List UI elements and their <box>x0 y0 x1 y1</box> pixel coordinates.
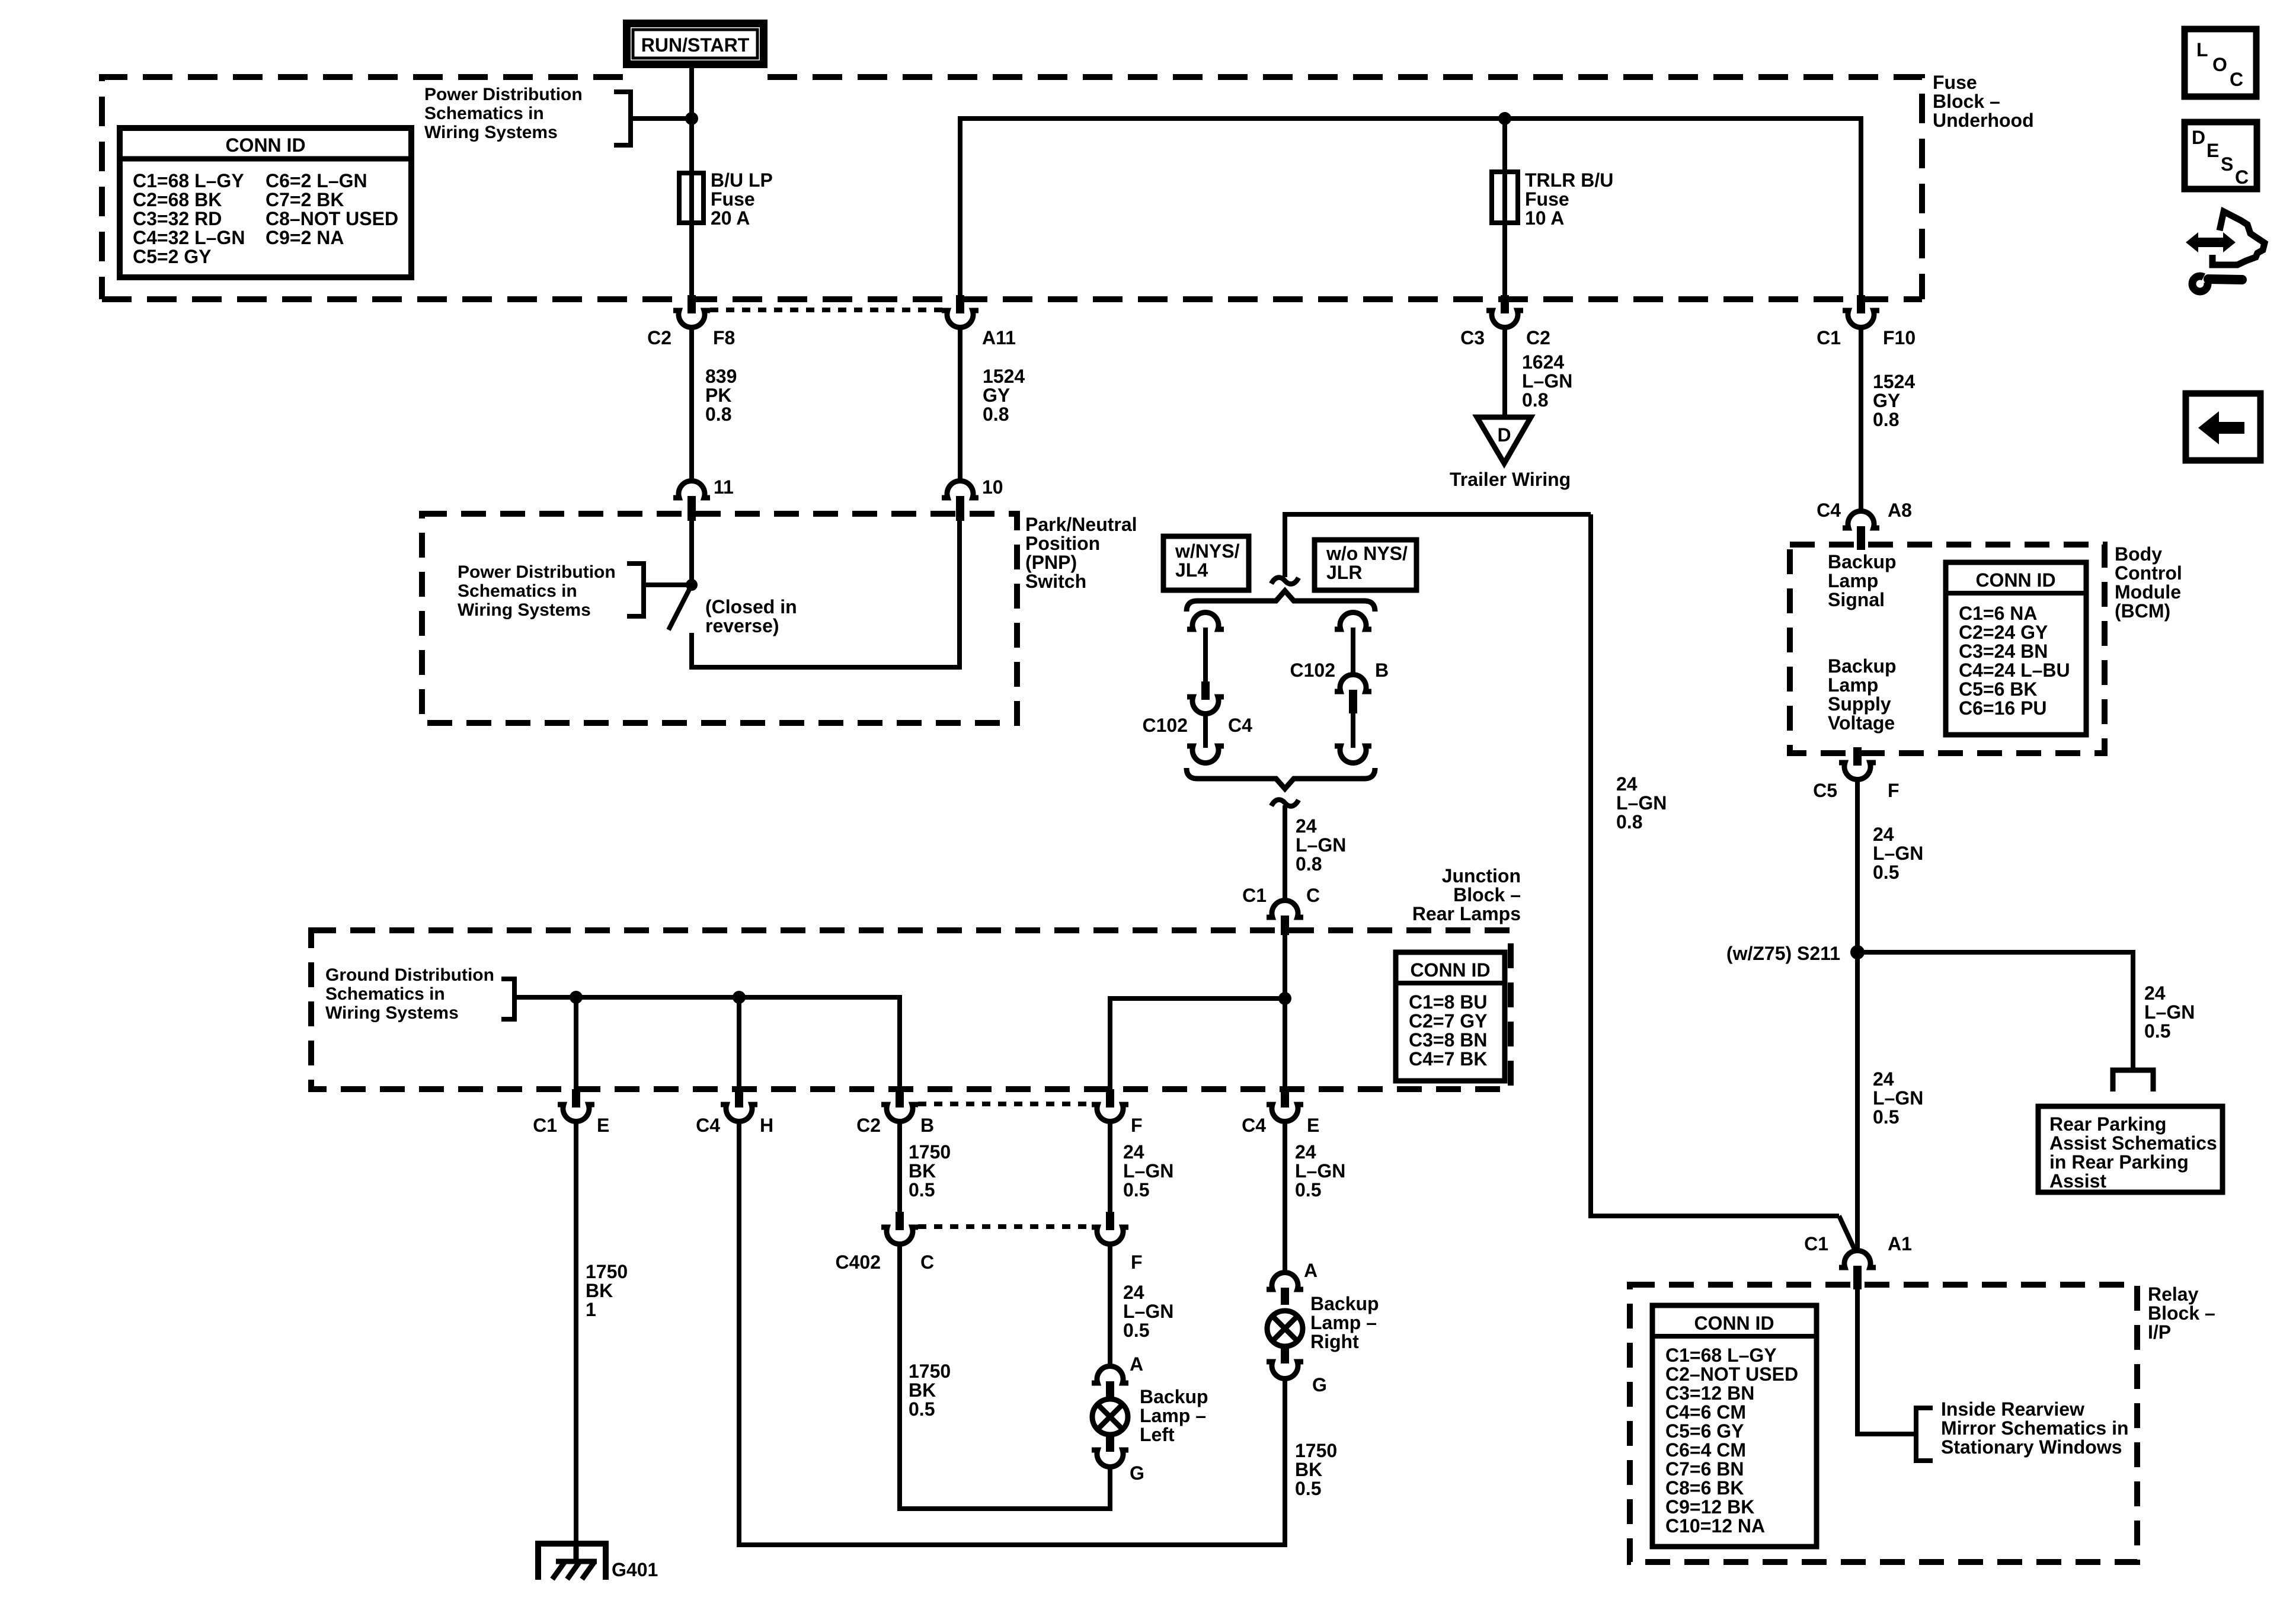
svg-text:1524: 1524 <box>983 366 1025 387</box>
wire F to left lamp A <box>1108 1244 1112 1368</box>
relay block I/P dashed box <box>1630 1285 2137 1562</box>
svg-text:G: G <box>1130 1462 1144 1484</box>
junction block rear lamps dashed box <box>311 930 1511 1089</box>
svg-text:C3=24 BN: C3=24 BN <box>1959 641 2048 662</box>
svg-text:0.5: 0.5 <box>1295 1179 1321 1201</box>
left option branch wire <box>1187 612 1224 629</box>
svg-text:D: D <box>1497 424 1511 446</box>
svg-text:1624: 1624 <box>1522 351 1564 373</box>
svg-text:Junction: Junction <box>1442 865 1521 886</box>
svg-text:C7=6 BN: C7=6 BN <box>1665 1458 1744 1480</box>
svg-text:0.8: 0.8 <box>705 404 731 425</box>
svg-text:I/P: I/P <box>2148 1321 2171 1343</box>
svg-text:A: A <box>1130 1353 1143 1375</box>
svg-text:(PNP): (PNP) <box>1025 552 1077 573</box>
svg-text:(BCM): (BCM) <box>2115 600 2170 622</box>
svg-text:Body: Body <box>2115 543 2162 565</box>
label Fuse Block - Underhood <box>1933 72 2034 131</box>
right branch lower wire <box>1351 713 1355 748</box>
left branch lower wire <box>1203 714 1208 748</box>
svg-text:Assist Schematics: Assist Schematics <box>2049 1132 2217 1154</box>
svg-text:24: 24 <box>1123 1141 1144 1163</box>
svg-text:JL4: JL4 <box>1175 559 1208 581</box>
svg-text:C4=7 BK: C4=7 BK <box>1409 1048 1488 1070</box>
wire F down to second F connector <box>1108 1122 1112 1212</box>
svg-text:(Closed in: (Closed in <box>705 596 797 617</box>
note Ground Distribution Schematics in Wiring Systems <box>325 965 494 1023</box>
svg-text:1750: 1750 <box>586 1261 628 1282</box>
svg-text:Inside Rearview: Inside Rearview <box>1941 1398 2084 1420</box>
svg-text:24: 24 <box>1616 773 1638 795</box>
svg-text:F10: F10 <box>1883 327 1916 348</box>
svg-text:C10=12 NA: C10=12 NA <box>1665 1515 1765 1537</box>
svg-text:0.8: 0.8 <box>1616 811 1642 833</box>
svg-text:L–GN: L–GN <box>1296 834 1346 856</box>
wire label 1524 GY 0.8 (F10) <box>1873 371 1915 430</box>
svg-text:Block –: Block – <box>1933 91 2000 112</box>
svg-text:E: E <box>2207 140 2219 161</box>
connector F (body harness) <box>1092 1212 1143 1273</box>
svg-text:C4: C4 <box>696 1115 720 1136</box>
wire 24 L-GN 0.8 long feed to relay block <box>1591 514 1839 1216</box>
svg-text:Switch: Switch <box>1025 571 1086 592</box>
svg-text:RUN/START: RUN/START <box>641 34 750 56</box>
svg-text:Trailer Wiring: Trailer Wiring <box>1450 469 1571 490</box>
note Power Distribution Schematics in Wiring Systems (PNP) <box>458 562 616 620</box>
svg-text:GY: GY <box>983 385 1010 406</box>
wire tap to TRLR fuse <box>1502 119 1507 172</box>
svg-text:L–GN: L–GN <box>1295 1160 1345 1182</box>
connector G (left lamp) <box>1092 1435 1144 1484</box>
svg-text:Signal: Signal <box>1828 589 1885 610</box>
svg-text:Assist: Assist <box>2049 1170 2106 1192</box>
svg-text:0.5: 0.5 <box>1295 1478 1321 1499</box>
svg-text:C3: C3 <box>1460 327 1485 348</box>
svg-text:Backup: Backup <box>1828 655 1897 677</box>
svg-text:CONN ID: CONN ID <box>225 135 305 156</box>
connector C2/F8 <box>647 295 735 348</box>
svg-text:1750: 1750 <box>909 1361 951 1382</box>
note Power Distribution Schematics in Wiring Systems (top) <box>424 85 583 142</box>
wire fuse to C2/F8 <box>689 223 694 296</box>
svg-text:H: H <box>760 1115 773 1136</box>
wire top link options to long feed <box>1285 514 1591 577</box>
wire label 1750 BK 0.5 (C2/B) <box>909 1141 951 1201</box>
svg-text:E: E <box>597 1115 609 1136</box>
svg-text:0.5: 0.5 <box>1123 1179 1149 1201</box>
wire label 1750 BK 0.5 (C402) <box>909 1361 951 1420</box>
wire C402/C ground return to left lamp <box>900 1244 1110 1509</box>
svg-text:Park/Neutral: Park/Neutral <box>1025 514 1137 535</box>
over-brace options split <box>1187 591 1375 612</box>
svg-text:O: O <box>2212 54 2227 75</box>
label Park/Neutral Position (PNP) Switch <box>1025 514 1137 592</box>
svg-text:Lamp –: Lamp – <box>1310 1312 1377 1333</box>
wire C2/F8 down to pin 11 <box>689 328 694 483</box>
svg-text:C9=12 BK: C9=12 BK <box>1665 1496 1754 1518</box>
bracket to ground note <box>501 979 514 1019</box>
svg-text:Block –: Block – <box>2148 1302 2215 1324</box>
svg-text:Fuse: Fuse <box>1525 188 1569 210</box>
connector C102/B <box>1290 660 1389 713</box>
CONN ID table fuse block underhood <box>120 128 411 277</box>
svg-text:C: C <box>2235 167 2249 188</box>
svg-text:D: D <box>2192 127 2205 148</box>
icon DESC box <box>2185 122 2257 189</box>
svg-text:C2=24 GY: C2=24 GY <box>1959 622 2048 643</box>
svg-text:F: F <box>1888 780 1900 801</box>
svg-text:A1: A1 <box>1888 1233 1912 1254</box>
svg-text:Supply: Supply <box>1828 693 1891 715</box>
svg-text:1524: 1524 <box>1873 371 1915 392</box>
svg-text:C2: C2 <box>856 1115 881 1136</box>
svg-text:24: 24 <box>1873 1068 1894 1090</box>
svg-text:24: 24 <box>1123 1282 1144 1303</box>
node junction block tap <box>1278 992 1291 1005</box>
svg-text:C6=2 L–GN: C6=2 L–GN <box>266 170 367 191</box>
connector pin 10 <box>942 476 1003 521</box>
svg-text:Fuse: Fuse <box>1933 72 1977 93</box>
bracket to power distribution note <box>614 92 631 145</box>
svg-text:L–GN: L–GN <box>1616 792 1667 814</box>
svg-text:C: C <box>1306 885 1320 906</box>
svg-text:w/o NYS/: w/o NYS/ <box>1326 543 1408 564</box>
label Backup Lamp Signal <box>1828 551 1897 610</box>
svg-text:B: B <box>920 1115 934 1136</box>
svg-text:Power Distribution: Power Distribution <box>424 85 583 104</box>
connector C4/H <box>696 1089 773 1136</box>
wire switch lower contact to pin 10 <box>692 517 960 667</box>
under-brace options merge <box>1187 768 1375 789</box>
svg-text:BK: BK <box>909 1379 936 1401</box>
CONN ID table BCM <box>1946 562 2086 735</box>
svg-text:BK: BK <box>1295 1459 1322 1480</box>
connector A (left lamp) <box>1092 1353 1143 1398</box>
wire label 24 L-GN 0.5 (branch) <box>2144 982 2195 1042</box>
svg-text:L–GN: L–GN <box>1123 1160 1173 1182</box>
diagonal into C1/A1 <box>1839 1216 1855 1250</box>
connector C1/A1 <box>1804 1233 1912 1289</box>
connector A (right lamp) <box>1267 1260 1318 1305</box>
wire bracket to RUN/START feed <box>631 116 692 121</box>
svg-text:10 A: 10 A <box>1525 207 1564 229</box>
svg-text:C5=6 GY: C5=6 GY <box>1665 1420 1744 1442</box>
svg-text:C2=68 BK: C2=68 BK <box>133 189 222 210</box>
label Relay Block - I/P <box>2148 1283 2215 1343</box>
svg-text:839: 839 <box>705 366 737 387</box>
svg-text:A8: A8 <box>1888 500 1912 521</box>
svg-text:TRLR B/U: TRLR B/U <box>1525 169 1613 191</box>
svg-text:0.8: 0.8 <box>1296 853 1322 875</box>
svg-text:C4: C4 <box>1228 715 1252 736</box>
wire A1 into relay block to mirror bracket <box>1857 1289 1914 1434</box>
svg-text:A: A <box>1304 1260 1318 1281</box>
svg-text:C4=6 CM: C4=6 CM <box>1665 1401 1746 1423</box>
wire TRLR fuse to C3/C2 <box>1502 223 1507 296</box>
connector A11 <box>942 295 1016 348</box>
wire right lamp G to return bus <box>1283 1379 1287 1547</box>
option box w/NYS/JL4 <box>1163 536 1249 590</box>
svg-text:Backup: Backup <box>1828 551 1897 572</box>
wire ground tap E down <box>574 997 578 1089</box>
splice S211 <box>1850 945 1865 959</box>
svg-text:C3=32 RD: C3=32 RD <box>133 208 222 229</box>
svg-text:C1: C1 <box>1817 327 1841 348</box>
svg-text:C2–NOT USED: C2–NOT USED <box>1665 1363 1798 1385</box>
svg-text:GY: GY <box>1873 390 1900 411</box>
svg-text:Voltage: Voltage <box>1828 712 1895 734</box>
svg-text:BK: BK <box>909 1160 936 1182</box>
svg-text:F: F <box>1131 1251 1143 1273</box>
connector C1/C <box>1242 885 1320 935</box>
option box w/o NYS/JLR <box>1315 540 1416 590</box>
off-page triangle D trailer wiring <box>1450 417 1571 490</box>
svg-text:C1=68 L–GY: C1=68 L–GY <box>133 170 244 191</box>
connector G (right lamp) <box>1267 1346 1327 1395</box>
svg-text:Lamp: Lamp <box>1828 674 1878 696</box>
svg-text:Control: Control <box>2115 562 2182 584</box>
svg-text:L: L <box>2196 39 2208 60</box>
svg-text:0.5: 0.5 <box>1873 1106 1899 1128</box>
svg-text:24: 24 <box>2144 982 2166 1004</box>
svg-text:F: F <box>1131 1115 1143 1136</box>
svg-text:24: 24 <box>1296 815 1317 837</box>
svg-text:Stationary Windows: Stationary Windows <box>1941 1436 2122 1458</box>
svg-text:B/U LP: B/U LP <box>711 169 773 191</box>
inline connector hook (top) <box>1271 578 1299 584</box>
svg-text:C4: C4 <box>1817 500 1841 521</box>
svg-text:S: S <box>2221 153 2233 175</box>
svg-text:G: G <box>1312 1374 1327 1395</box>
svg-text:Backup: Backup <box>1140 1386 1208 1407</box>
svg-text:Wiring Systems: Wiring Systems <box>424 123 558 142</box>
ground bus wire <box>514 997 900 1089</box>
svg-text:0.5: 0.5 <box>909 1398 935 1420</box>
output bus A11 to F10 <box>960 119 1861 296</box>
svg-text:Schematics in: Schematics in <box>424 104 544 123</box>
svg-text:C3=8 BN: C3=8 BN <box>1409 1029 1488 1051</box>
wire C2/B down to C402/C <box>897 1122 902 1212</box>
svg-text:PK: PK <box>705 385 731 406</box>
connector C4/A8 <box>1817 500 1912 550</box>
CONN ID table junction block <box>1396 952 1505 1081</box>
svg-text:1750: 1750 <box>909 1141 951 1163</box>
connector C1/E <box>533 1089 609 1136</box>
wire label 1750 BK 0.5 (right lamp) <box>1295 1440 1337 1499</box>
svg-text:in Rear Parking: in Rear Parking <box>2049 1151 2189 1173</box>
svg-text:L–GN: L–GN <box>1873 1087 1923 1109</box>
dotted connector tie C2/F8 to A11 <box>710 308 942 312</box>
right option branch wire <box>1335 612 1371 629</box>
svg-text:24: 24 <box>1873 824 1894 845</box>
svg-text:L–GN: L–GN <box>1123 1301 1173 1322</box>
label Junction Block - Rear Lamps <box>1412 865 1521 924</box>
svg-text:Relay: Relay <box>2148 1283 2199 1305</box>
svg-text:reverse): reverse) <box>705 615 779 636</box>
connector C3/C2 <box>1460 295 1550 348</box>
icon back arrow box <box>2186 393 2260 460</box>
label Body Control Module (BCM) <box>2115 543 2182 622</box>
wire label 24 L-GN 0.5 (to left lamp) <box>1123 1282 1173 1341</box>
wire label 1750 BK 1 (C1/E) <box>586 1261 628 1320</box>
svg-text:F8: F8 <box>713 327 735 348</box>
svg-text:C7=2 BK: C7=2 BK <box>266 189 344 210</box>
svg-text:Rear Parking: Rear Parking <box>2049 1113 2166 1135</box>
svg-text:C1: C1 <box>1242 885 1267 906</box>
wire label 24 L-GN 0.5 (F) <box>1123 1141 1173 1201</box>
CONN ID table relay block <box>1652 1305 1817 1547</box>
svg-text:CONN ID: CONN ID <box>1410 959 1490 981</box>
svg-text:1: 1 <box>586 1299 596 1320</box>
svg-text:L–GN: L–GN <box>1522 370 1572 392</box>
dotted connector tie C2/B to F <box>918 1102 1092 1106</box>
BCM dashed box <box>1790 545 2105 753</box>
icon LOC box <box>2185 29 2256 97</box>
svg-text:C: C <box>2230 69 2243 90</box>
svg-text:JLR: JLR <box>1326 562 1362 583</box>
wire label 24 L-GN 0.5 (C4/E) <box>1295 1141 1345 1201</box>
svg-text:C102: C102 <box>1290 660 1336 681</box>
wire C4/E to right lamp A <box>1283 1122 1287 1274</box>
svg-text:C4=32 L–GN: C4=32 L–GN <box>133 227 245 248</box>
svg-text:Mirror Schematics in: Mirror Schematics in <box>1941 1417 2129 1439</box>
wire label 1624 L-GN 0.8 <box>1522 351 1572 411</box>
wire ground tap H down <box>737 997 741 1089</box>
svg-text:C4=24 L–BU: C4=24 L–BU <box>1959 660 2070 681</box>
svg-text:C2: C2 <box>647 327 671 348</box>
svg-text:Schematics in: Schematics in <box>325 984 445 1004</box>
switch blade (closed in reverse) <box>669 585 692 630</box>
svg-text:L–GN: L–GN <box>2144 1001 2195 1023</box>
svg-text:10: 10 <box>982 476 1003 498</box>
inline connector hook (bottom) <box>1271 800 1299 806</box>
svg-text:C8=6 BK: C8=6 BK <box>1665 1477 1744 1499</box>
svg-text:Fuse: Fuse <box>711 188 755 210</box>
wire A11 down to pin 10 <box>958 328 962 483</box>
dotted connector tie C402/C to F <box>918 1224 1092 1229</box>
svg-text:CONN ID: CONN ID <box>1694 1313 1774 1334</box>
connector C102/C4 <box>1143 681 1253 736</box>
svg-text:24: 24 <box>1295 1141 1316 1163</box>
wire C1/C into junction block <box>1283 934 1287 1089</box>
svg-text:0.8: 0.8 <box>1522 389 1548 411</box>
svg-text:11: 11 <box>714 476 734 498</box>
svg-text:0.5: 0.5 <box>1873 862 1899 883</box>
svg-text:w/NYS/: w/NYS/ <box>1175 540 1240 562</box>
svg-text:0.8: 0.8 <box>983 404 1009 425</box>
wire RUN/START down to fuse <box>689 66 694 173</box>
svg-text:L–GN: L–GN <box>1873 843 1923 864</box>
bracket to PNP note <box>627 564 644 616</box>
svg-text:C3=12 BN: C3=12 BN <box>1665 1382 1754 1404</box>
svg-text:C402: C402 <box>836 1251 881 1273</box>
svg-text:Left: Left <box>1140 1424 1175 1445</box>
connector pin 11 <box>673 476 734 521</box>
fuse B/U LP 20A <box>679 173 703 223</box>
svg-text:C6=16 PU: C6=16 PU <box>1959 697 2047 719</box>
off-page fork to rear parking assist <box>2113 1070 2153 1092</box>
svg-text:CONN ID: CONN ID <box>1975 569 2055 591</box>
wire label 24 L-GN 0.5 (to A1) <box>1873 1068 1923 1128</box>
wire C5/F down through S211 to C1/A1 <box>1855 780 1860 1252</box>
svg-text:(w/Z75) S211: (w/Z75) S211 <box>1726 943 1840 964</box>
wire S211 branch to rear parking assist <box>1857 952 2133 1068</box>
wire label 24 L-GN 0.5 (C5/F) <box>1873 824 1923 883</box>
svg-text:Schematics in: Schematics in <box>458 581 577 601</box>
svg-text:C1=8 BU: C1=8 BU <box>1409 991 1488 1013</box>
node junction TRLR fuse tap <box>1498 112 1511 125</box>
wire C1/E to G401 <box>574 1122 578 1544</box>
svg-text:B: B <box>1375 660 1389 681</box>
connector F (junction block) <box>1092 1089 1143 1136</box>
svg-text:C1: C1 <box>1804 1233 1828 1254</box>
svg-text:Lamp: Lamp <box>1828 570 1878 591</box>
svg-text:0.8: 0.8 <box>1873 409 1899 430</box>
svg-text:0.5: 0.5 <box>1123 1320 1149 1341</box>
svg-text:C4: C4 <box>1242 1115 1266 1136</box>
RUN/START power feed box <box>623 20 768 68</box>
callout box Rear Parking Assist Schematics <box>2038 1106 2223 1192</box>
svg-text:A11: A11 <box>982 327 1016 348</box>
svg-text:C8–NOT USED: C8–NOT USED <box>266 208 398 229</box>
svg-text:1750: 1750 <box>1295 1440 1337 1461</box>
svg-text:20 A: 20 A <box>711 207 750 229</box>
wire pin 11 into switch <box>689 517 694 585</box>
svg-text:C9=2 NA: C9=2 NA <box>266 227 344 248</box>
note Inside Rearview Mirror Schematics in Stationary Windows <box>1941 1398 2129 1458</box>
svg-text:G401: G401 <box>612 1559 658 1580</box>
wire C4/H down to lamp return bus <box>737 1122 741 1547</box>
svg-text:C1=68 L–GY: C1=68 L–GY <box>1665 1345 1777 1366</box>
svg-text:E: E <box>1307 1115 1319 1136</box>
svg-text:C1=6 NA: C1=6 NA <box>1959 603 2038 624</box>
connector C4/E <box>1242 1089 1319 1136</box>
svg-text:Lamp –: Lamp – <box>1140 1405 1206 1426</box>
svg-text:C2: C2 <box>1526 327 1550 348</box>
svg-text:Rear Lamps: Rear Lamps <box>1412 903 1521 924</box>
connector C2/B <box>856 1089 934 1136</box>
svg-text:Ground Distribution: Ground Distribution <box>325 965 494 985</box>
wire C3/C2 to trailer wiring triangle <box>1502 328 1507 418</box>
connector C5/F <box>1813 747 1899 801</box>
svg-text:C5: C5 <box>1813 780 1837 801</box>
fuse block underhood dashed box <box>102 77 1922 299</box>
svg-text:C1: C1 <box>533 1115 557 1136</box>
wire bracket to switch node <box>644 582 692 587</box>
bracket to inside rearview mirror note <box>1916 1408 1933 1461</box>
svg-text:Wiring Systems: Wiring Systems <box>325 1003 459 1023</box>
svg-text:C: C <box>920 1251 934 1273</box>
wire label 839 PK 0.8 <box>705 366 737 425</box>
wire label 24 L-GN 0.8 (long feed) <box>1616 773 1667 833</box>
svg-text:C5=6 BK: C5=6 BK <box>1959 678 2038 700</box>
svg-text:C2=7 GY: C2=7 GY <box>1409 1010 1488 1032</box>
wire F10 to C4/A8 <box>1859 328 1863 513</box>
wire junction block internal to F drop <box>1110 998 1285 1089</box>
svg-text:C6=4 CM: C6=4 CM <box>1665 1439 1746 1461</box>
PNP switch dashed box <box>422 514 1017 723</box>
connector C402/C <box>836 1212 935 1273</box>
wire F10 bus corner handled above; connector C1/F10 <box>1817 295 1916 348</box>
label Backup Lamp Supply Voltage <box>1828 655 1897 734</box>
node switch pivot <box>686 579 698 591</box>
svg-text:Wiring Systems: Wiring Systems <box>458 600 591 620</box>
svg-text:C5=2 GY: C5=2 GY <box>133 246 212 267</box>
wire label 1524 GY 0.8 <box>983 366 1025 425</box>
backup lamp left <box>1092 1386 1208 1445</box>
fuse TRLR B/U 10A <box>1492 172 1518 223</box>
wire merge down to C1/C <box>1283 805 1287 901</box>
